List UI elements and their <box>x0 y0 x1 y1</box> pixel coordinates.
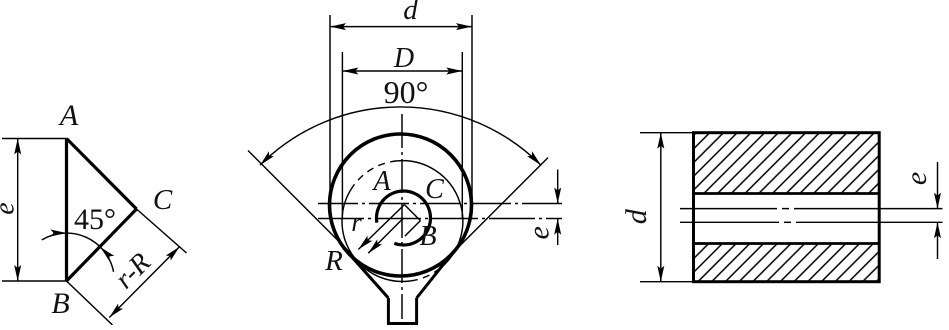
svg-text:C: C <box>153 184 173 216</box>
svg-text:A: A <box>371 166 391 197</box>
svg-text:e: e <box>900 172 933 185</box>
svg-text:C: C <box>425 174 444 205</box>
dimension r-R <box>109 247 179 318</box>
extension line from B <box>67 281 113 325</box>
svg-text:r-R: r-R <box>109 247 157 295</box>
dimension line d right fig <box>660 133 662 282</box>
vertical centerline <box>401 114 403 319</box>
leader r <box>358 205 404 250</box>
funnel right slant <box>417 255 451 298</box>
bore circle (thick, gap lower-left) <box>376 191 430 245</box>
dimension line e <box>17 139 19 282</box>
arrowhead right end of 90 arc <box>527 151 541 165</box>
label r-R <box>109 247 157 295</box>
horizontal centerline bore <box>318 218 562 220</box>
svg-text:d: d <box>403 0 418 26</box>
svg-text:B: B <box>51 287 69 320</box>
svg-text:45°: 45° <box>74 203 116 236</box>
segment A-C <box>404 205 420 221</box>
body rectangle <box>694 133 880 282</box>
hatch bottom band <box>695 245 878 281</box>
svg-text:e: e <box>0 202 20 214</box>
e dimension upper arrow right fig <box>937 162 939 209</box>
e dimension lower arrow right fig <box>937 222 939 259</box>
svg-text:B: B <box>419 221 436 252</box>
extension line D left <box>341 52 343 220</box>
tab right side <box>415 298 418 324</box>
right V tangent line <box>449 158 548 257</box>
thin circle D dashed arc upper-left <box>353 161 397 187</box>
bore bottom wall <box>694 242 880 245</box>
svg-text:A: A <box>58 99 79 132</box>
centerline bore long dash left <box>680 221 779 223</box>
centerline bore long dash right <box>796 221 943 223</box>
dimension line d <box>330 26 472 28</box>
outer circle d <box>330 134 472 276</box>
arrowhead left end of 90 arc <box>260 151 274 165</box>
wire AB (vertical thick edge) <box>65 139 68 282</box>
dimension line D <box>342 70 462 72</box>
wire BC (thick edge) <box>67 209 137 281</box>
segment C-B <box>405 221 421 237</box>
horizontal centerline outer <box>318 203 562 205</box>
label e <box>0 202 20 214</box>
centerline bore dot <box>784 221 791 223</box>
funnel left slant <box>350 255 388 298</box>
svg-text:90°: 90° <box>384 74 429 110</box>
svg-text:R: R <box>324 245 343 277</box>
90 degree arc <box>260 107 541 165</box>
label e middle <box>523 226 556 239</box>
svg-text:d: d <box>620 208 653 224</box>
arrowhead on AB <box>51 230 67 237</box>
hatch top band <box>695 134 878 193</box>
arrowhead on BC <box>100 247 114 261</box>
centerline outer long dash left <box>680 208 777 210</box>
thin circle D dashed arc lower-right <box>411 272 435 281</box>
extension line bottom for e <box>2 280 67 282</box>
wire AC (thick edge) <box>67 139 137 210</box>
extension line D right <box>461 52 463 220</box>
svg-text:r: r <box>351 207 362 237</box>
45 degree arc <box>42 233 114 272</box>
extension line d bottom <box>640 281 694 283</box>
tab left side <box>387 298 390 324</box>
label d right fig <box>620 208 653 224</box>
svg-text:e: e <box>523 226 556 239</box>
thin circle D solid arc right-top <box>397 161 463 273</box>
leader R <box>368 218 403 253</box>
thin circle D solid arc left-bottom <box>342 187 411 282</box>
svg-text:D: D <box>393 43 414 74</box>
extension line d top <box>640 132 694 134</box>
extension line top for e <box>2 138 67 140</box>
e dimension lower arrow <box>557 219 559 245</box>
bore top wall <box>694 192 880 195</box>
centerline outer dot <box>782 208 789 210</box>
extension line from C <box>137 209 187 253</box>
e dimension upper arrow <box>557 170 559 204</box>
extension line d left <box>329 15 331 205</box>
label e right fig <box>900 172 933 185</box>
left V tangent line <box>248 151 352 255</box>
tab bottom <box>387 322 418 325</box>
extension line d right <box>471 15 473 205</box>
centerline outer long dash right <box>794 208 943 210</box>
